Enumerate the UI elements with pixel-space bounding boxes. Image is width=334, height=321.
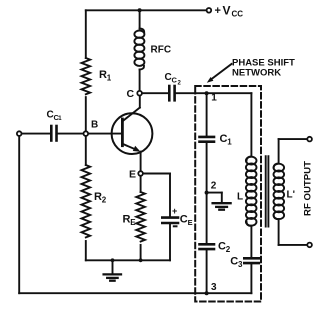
svg-text:RFC: RFC [151,45,172,56]
svg-text:2: 2 [178,81,182,87]
svg-text:1: 1 [58,116,62,122]
svg-text:C: C [127,88,135,100]
svg-text:C: C [230,256,238,268]
svg-text:V: V [223,4,231,18]
svg-text:2: 2 [102,196,107,205]
svg-text:C: C [180,214,188,226]
svg-text:E: E [188,218,193,227]
svg-text:RF OUTPUT: RF OUTPUT [303,161,314,216]
svg-text:3: 3 [211,282,217,293]
svg-text:+: + [172,206,177,216]
svg-text:1: 1 [107,74,112,83]
svg-text:R: R [94,191,102,203]
svg-text:L': L' [287,190,296,201]
svg-text:3: 3 [238,260,243,269]
svg-text:R: R [123,214,131,226]
svg-text:CC: CC [232,10,244,19]
svg-text:1: 1 [211,93,217,104]
svg-text:E: E [129,168,136,180]
svg-text:2: 2 [226,245,231,254]
svg-text:B: B [91,120,98,131]
svg-text:+: + [215,5,221,17]
svg-text:R: R [99,69,107,81]
svg-text:1: 1 [227,138,232,147]
svg-text:E: E [130,218,136,227]
svg-text:2: 2 [211,180,217,191]
svg-text:L: L [237,191,243,202]
svg-text:NETWORK: NETWORK [232,68,281,79]
svg-text:C: C [218,241,226,253]
svg-text:C: C [220,133,228,145]
